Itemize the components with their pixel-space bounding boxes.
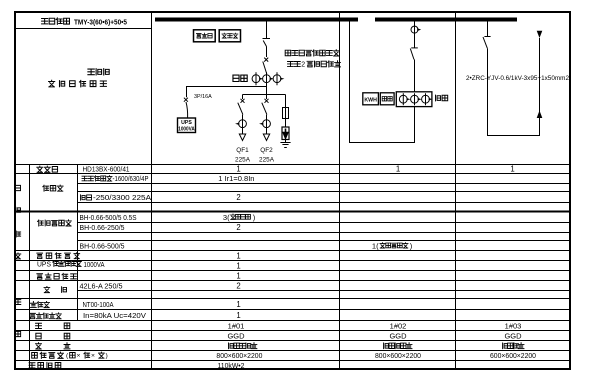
svg-text:HD13BX-600/41: HD13BX-600/41 (83, 165, 130, 174)
svg-text:-250/3300 225A: -250/3300 225A (93, 193, 151, 202)
svg-text:BH-0.66-250/5: BH-0.66-250/5 (80, 223, 125, 232)
row 设备容量 110kW*2 (29, 361, 244, 370)
fuse FU (rectangle on line) (283, 108, 289, 119)
label 计量 (436, 95, 441, 101)
svg-text:800×600×2200: 800×600×2200 (375, 351, 421, 360)
svg-text:BH-0.66-500/5: BH-0.66-500/5 (80, 241, 125, 250)
row 框架断路器-1600/630/4P (82, 174, 255, 183)
power-flow arrow (up) (537, 111, 543, 119)
svg-text:KWH: KWH (364, 97, 377, 103)
svg-text:42L6-A 250/5: 42L6-A 250/5 (80, 282, 123, 291)
svg-text:1: 1 (236, 300, 240, 309)
branch CT TA (circle with left arrow) QF1 (235, 120, 246, 128)
svg-text:GGD: GGD (227, 332, 245, 341)
table row 刀开关 HD13BX-600/41 (37, 165, 515, 174)
row 用途 (36, 343, 524, 349)
svg-text:1#03: 1#03 (505, 321, 522, 330)
branch CT TA (circle with left arrow) QF2 (259, 120, 270, 128)
svg-text:1: 1 (236, 165, 240, 174)
svg-text:QF1: QF1 (236, 147, 249, 154)
header label 低压母线 TMY-3(60*6)+50*5 (42, 18, 127, 27)
svg-text:GGD: GGD (504, 332, 522, 341)
svg-text:1000VA: 1000VA (84, 260, 105, 269)
feeder breaker QF1 (x + blade) (238, 95, 245, 120)
label QF1 225A (235, 147, 251, 164)
wire: branch bus (243, 94, 286, 96)
svg-text:2: 2 (301, 62, 305, 69)
svg-text:QF2: QF2 (260, 147, 273, 154)
svg-text:-1600/630/4P: -1600/630/4P (113, 176, 149, 183)
svg-text:3(: 3( (223, 213, 230, 222)
svg-text:1: 1 (510, 165, 514, 174)
wire: outgoing loop (488, 38, 540, 136)
svg-text:GGD: GGD (389, 332, 407, 341)
svg-text:110kW•2: 110kW•2 (218, 361, 245, 370)
cable end arrow (down) (537, 31, 543, 38)
svg-text:1#02: 1#02 (390, 321, 407, 330)
group label 电流互感器 (38, 220, 44, 226)
svg-text:1000VA: 1000VA (178, 127, 195, 133)
row 屏宽尺寸(长×宽×高) (32, 351, 536, 360)
svg-text:2: 2 (236, 282, 240, 291)
group label 表 计 (44, 286, 66, 292)
busbar W1 (low-voltage bus, left section) (155, 18, 358, 22)
isolator QS1 (tick contact + blade) (263, 39, 271, 58)
row 防孤岛装置 (37, 272, 241, 281)
svg-text:3P/16A: 3P/16A (194, 94, 212, 100)
wire: main drop from busbar (266, 22, 268, 39)
feeder outgoing arrow QF2 (263, 128, 269, 141)
label QF2 225A (259, 147, 275, 164)
circuit breaker QF (x contact + blade) (263, 58, 268, 74)
label 标准型智能控制器 / 延时2秒失压保护 (285, 50, 340, 69)
svg-text:): ) (106, 353, 108, 360)
svg-text:2: 2 (236, 193, 240, 202)
isolator QS2 (tick + blade) (410, 48, 418, 92)
feeder breaker QF2 (x + blade) (262, 95, 269, 120)
wire: drop to branch bus (266, 84, 268, 95)
svg-text:TMY-3(60•6)+50•5: TMY-3(60•6)+50•5 (74, 18, 127, 27)
wire: outgoing drop from busbar (487, 22, 489, 37)
svg-text:NT00-100A: NT00-100A (83, 300, 114, 309)
title 并网点 一次主接线图 (49, 69, 110, 87)
row UPS不间断电源 1000VA (37, 260, 241, 271)
svg-text:1: 1 (236, 262, 240, 271)
UPS unit box (UPS 1000VA) (178, 118, 196, 133)
svg-text:In=80kA Uc=420V: In=80kA Uc=420V (83, 311, 146, 320)
wire: metering loop down-left-up to bus W1 (350, 22, 415, 143)
ground symbol (280, 140, 290, 148)
svg-text:800×600×2200: 800×600×2200 (216, 351, 262, 360)
svg-text:2: 2 (236, 223, 240, 232)
wire: arrester branch (285, 95, 287, 108)
CT TA4 on incomer (circle with arrow) (411, 26, 421, 33)
digital meter box 数显表 (219, 30, 240, 42)
svg-text:225A: 225A (235, 157, 251, 164)
load-control box 负控 (380, 93, 394, 105)
feeder outgoing arrow QF1 (239, 128, 245, 141)
column label 主要电器设备 (vertical) (15, 185, 21, 336)
svg-text:×: × (77, 353, 81, 360)
svg-text:1: 1 (396, 165, 400, 174)
svg-text:UPS: UPS (37, 260, 51, 269)
svg-text:2•ZRC-YJV-0.6/1kV-3x95+1x50mm2: 2•ZRC-YJV-0.6/1kV-3x95+1x50mm2 (466, 75, 569, 82)
row BH-0.66-500/5 (reactive) (80, 241, 413, 250)
svg-text:1: 1 (236, 272, 240, 281)
svg-text:1(: 1( (372, 241, 379, 250)
wire: UPS tap line (187, 87, 267, 98)
anti-islanding device box 防孤岛 (194, 30, 216, 42)
surge arrester F1 (box with down arrow) (282, 127, 289, 140)
svg-text:1: 1 (236, 311, 240, 320)
row 熔断器 NT00-100A (31, 300, 241, 309)
row BH-0.66-250/5 (80, 223, 241, 232)
svg-text:UPS: UPS (181, 120, 192, 126)
energy meter box KWH (363, 93, 379, 105)
row 42L6-A 250/5 (80, 282, 241, 291)
svg-text:BH-0.66-500/5 0.5S: BH-0.66-500/5 0.5S (80, 213, 137, 222)
svg-text:×: × (91, 353, 95, 360)
isolator QS3 (tick + blade) (483, 37, 491, 49)
wire: metering drop (414, 22, 416, 48)
row 多功能仪表 (37, 252, 241, 261)
UPS branch breaker 3P/16A (184, 98, 188, 118)
measuring CTs TA1-TA3 (3 circles with arrows) (252, 72, 284, 85)
svg-text:225A: 225A (259, 157, 275, 164)
busbar W2 (low-voltage bus, right section) (375, 18, 517, 22)
row 型号 (36, 332, 522, 341)
row 浪涌保护器 In=80kA Uc=420V (30, 311, 241, 320)
row BH-0.66-500/5 0.5S (80, 213, 256, 222)
row 塑壳-250/3300 225A (81, 193, 241, 202)
wire (285, 119, 287, 128)
svg-text:1 Ir1=0.8In: 1 Ir1=0.8In (218, 174, 254, 183)
metering CT box (3 circles) (396, 92, 432, 107)
label 测量 (233, 75, 239, 81)
svg-text:600×600×2200: 600×600×2200 (490, 351, 536, 360)
svg-text:1#01: 1#01 (228, 321, 245, 330)
group label 断路器 (43, 185, 49, 191)
svg-text:1: 1 (236, 252, 240, 261)
row 编号 (36, 321, 522, 330)
